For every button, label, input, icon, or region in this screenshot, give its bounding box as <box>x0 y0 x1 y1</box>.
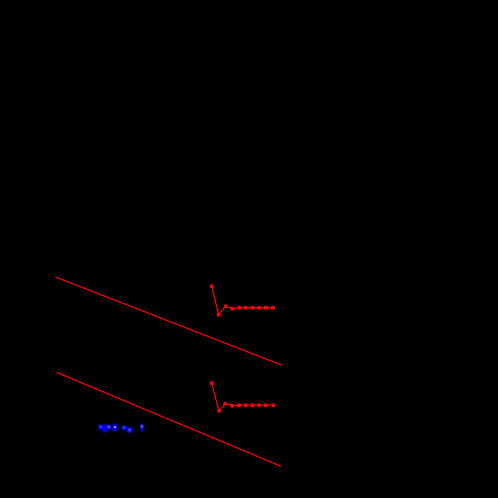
data series 1 polyline <box>212 286 273 314</box>
blue annotation text blobs <box>98 424 143 433</box>
data series 2 square markers <box>210 382 275 413</box>
data series 2 polyline <box>212 383 273 411</box>
fit line 2 (lower red diagonal) <box>57 372 281 466</box>
fit line 1 (upper red diagonal) <box>56 277 282 365</box>
bright cores of annotation glyphs <box>100 425 143 431</box>
white core of circle glyph <box>114 426 116 428</box>
data series 1 square markers <box>210 285 275 317</box>
